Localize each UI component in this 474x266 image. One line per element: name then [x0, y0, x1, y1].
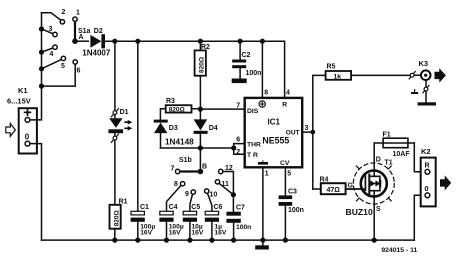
svg-text:5: 5: [287, 171, 291, 178]
resistor R4 47R: [313, 176, 365, 194]
svg-text:R: R: [425, 163, 430, 170]
capacitor C4 100u 16V: [159, 204, 183, 240]
op-amp timer IC1 NE555 body: [245, 98, 303, 167]
ground bar below IC1 pin 1 on ground rail: [255, 240, 269, 249]
IC1 internal ground bar at pin 1: [258, 161, 268, 165]
svg-text:S1b: S1b: [179, 157, 192, 164]
svg-text:100n: 100n: [288, 207, 304, 214]
capacitor C1 100u 16V: [131, 41, 156, 240]
svg-text:4: 4: [50, 51, 54, 58]
resistor R5 1k: [313, 64, 411, 81]
svg-text:0: 0: [25, 133, 30, 142]
svg-text:C3: C3: [288, 188, 297, 195]
svg-text:2: 2: [236, 149, 240, 156]
svg-text:R2: R2: [201, 44, 210, 51]
jack socket K3: [414, 59, 430, 80]
IC1 pin 5 wire: [285, 167, 291, 195]
wire: DIS pin 7 to R2/R3/D4 node: [200, 102, 244, 109]
rotary switch S1b pole B and wiper to contact 7: [171, 157, 208, 174]
svg-text:16V: 16V: [191, 230, 203, 237]
rotary switch S1a contact 3: [42, 26, 58, 37]
transistor T1 BUZ10 MOSFET: [346, 143, 395, 240]
rotary switch S1b contact 12: [219, 165, 236, 212]
svg-text:R5: R5: [327, 64, 336, 71]
svg-text:R1: R1: [119, 198, 128, 205]
svg-text:T1: T1: [385, 160, 393, 167]
svg-text:100n: 100n: [246, 70, 262, 77]
rotary switch S1a contact 2: [42, 9, 66, 24]
wire: pin 8 supply drop: [261, 41, 263, 98]
wire: timing node to THR/TR link: [161, 145, 237, 171]
IC1 pin 1 wire to ground: [263, 167, 269, 240]
svg-text:10: 10: [210, 192, 218, 199]
svg-text:C2: C2: [242, 52, 251, 59]
svg-text:OUT: OUT: [286, 129, 300, 136]
svg-text:0: 0: [424, 184, 428, 193]
svg-text:3: 3: [49, 26, 53, 33]
fuse F1 10AF: [374, 131, 414, 158]
wire: K1 0 terminal down to ground rail: [30, 144, 42, 241]
svg-text:K1: K1: [18, 86, 28, 95]
svg-text:8: 8: [174, 181, 178, 188]
svg-text:R: R: [282, 102, 287, 109]
svg-text:B: B: [202, 164, 207, 171]
svg-text:T R: T R: [247, 152, 258, 159]
capacitor C2 100n: [232, 41, 261, 78]
IC1 pin 8 plus marker: [259, 101, 265, 107]
rotary switch S1b contact 9: [185, 190, 196, 211]
svg-text:DIS: DIS: [247, 108, 259, 115]
arrow at K2: [440, 175, 451, 190]
svg-text:D3: D3: [169, 125, 178, 132]
svg-text:1N4148: 1N4148: [165, 138, 194, 147]
svg-text:820Ω: 820Ω: [199, 57, 206, 73]
svg-text:BUZ10: BUZ10: [346, 207, 373, 217]
svg-text:R3: R3: [166, 98, 175, 105]
svg-text:1N4007: 1N4007: [82, 48, 111, 57]
IC1 OUT pin 3 wire and node: [302, 125, 315, 135]
svg-text:F1: F1: [383, 131, 391, 138]
wire: fuse to K2 R terminal: [414, 143, 425, 172]
svg-text:820Ω: 820Ω: [113, 210, 120, 226]
svg-text:D: D: [376, 157, 381, 164]
rotary switch S1b contact 11: [215, 180, 233, 195]
svg-text:D4: D4: [209, 125, 218, 132]
diode D2 1N4007: [82, 28, 111, 57]
capacitor C6 1u 16V: [205, 204, 227, 240]
svg-text:100n: 100n: [236, 224, 251, 231]
svg-text:D2: D2: [94, 28, 103, 35]
ground bar below C2: [232, 79, 247, 84]
resistor R3 820R: [160, 98, 200, 119]
connector K1: [7, 86, 37, 154]
svg-text:C4: C4: [169, 204, 178, 211]
svg-text:16V: 16V: [140, 230, 152, 237]
svg-text:C7: C7: [236, 205, 245, 212]
svg-text:R4: R4: [320, 176, 329, 183]
capacitor C7 100n: [226, 205, 251, 241]
svg-text:5: 5: [61, 63, 65, 70]
capacitor C3 100n: [279, 188, 304, 240]
svg-text:THR: THR: [247, 141, 261, 148]
wire: top +V rail: [104, 39, 285, 99]
svg-text:C1: C1: [140, 204, 149, 211]
svg-text:1: 1: [265, 171, 269, 178]
svg-text:C6: C6: [214, 204, 223, 211]
arrow at K3: [435, 68, 446, 82]
wire: left +V rail from switch contacts to K1 plus: [30, 13, 44, 120]
svg-text:6...15V: 6...15V: [7, 96, 31, 105]
wire: ground rail up to K2 0 terminal: [414, 195, 425, 240]
svg-text:C5: C5: [191, 204, 200, 211]
svg-text:K3: K3: [419, 59, 429, 68]
wire: THR/TR pin link: [234, 137, 245, 156]
svg-text:6: 6: [236, 137, 240, 144]
rotary switch S1a contact 5: [42, 56, 66, 70]
svg-text:6: 6: [77, 68, 81, 75]
svg-text:1: 1: [76, 10, 80, 17]
connector K2: [421, 147, 436, 206]
board pin on K3 signal wire: [409, 72, 415, 79]
svg-text:4: 4: [286, 90, 290, 97]
svg-text:10AF: 10AF: [393, 151, 411, 158]
capacitor C5 10u 16V: [183, 204, 204, 240]
input arrow at K1: [6, 123, 16, 136]
svg-text:2: 2: [62, 9, 66, 16]
LED D1 with panel pins: [108, 41, 132, 205]
ground rail (bottom): [42, 238, 415, 243]
svg-text:7: 7: [171, 166, 175, 173]
rotary switch S1b contact 8: [167, 181, 185, 211]
svg-text:7: 7: [236, 102, 240, 109]
svg-text:1k: 1k: [334, 74, 342, 81]
diode D4 1N4148: [165, 119, 218, 148]
svg-text:K2: K2: [421, 147, 431, 156]
svg-text:IC1: IC1: [268, 118, 281, 127]
ground bar below K3: [418, 91, 436, 106]
rotary switch S1b contact 10: [205, 189, 218, 211]
wire: output node vertical (R5 branch / R4 branch): [312, 75, 314, 189]
svg-text:16V: 16V: [214, 230, 226, 237]
board pin on K3 sleeve wire: [423, 80, 429, 93]
rotary switch S1a contact 1 and wiper arm A: [72, 10, 90, 45]
svg-text:A: A: [79, 34, 84, 41]
svg-text:NE555: NE555: [262, 135, 289, 145]
resistor R2 820R: [195, 41, 210, 119]
svg-text:924015 - 11: 924015 - 11: [381, 247, 417, 254]
svg-text:CV: CV: [280, 160, 290, 167]
resistor R1 820R: [110, 198, 128, 240]
svg-text:820Ω: 820Ω: [169, 107, 185, 114]
svg-text:16V: 16V: [169, 230, 181, 237]
svg-text:D1: D1: [120, 109, 129, 116]
rotary switch S1a contact 4: [42, 45, 58, 58]
svg-text:47Ω: 47Ω: [327, 187, 341, 194]
wire: pole A to diode D2: [75, 40, 88, 42]
chassis mark at K3 sleeve: [411, 90, 418, 94]
diode D3 1N4148: [154, 120, 178, 148]
svg-text:3: 3: [305, 125, 309, 132]
rotary switch S1a contact 6: [42, 60, 81, 86]
svg-text:8: 8: [264, 90, 268, 97]
svg-text:9: 9: [185, 191, 189, 198]
svg-text:S: S: [376, 206, 381, 213]
